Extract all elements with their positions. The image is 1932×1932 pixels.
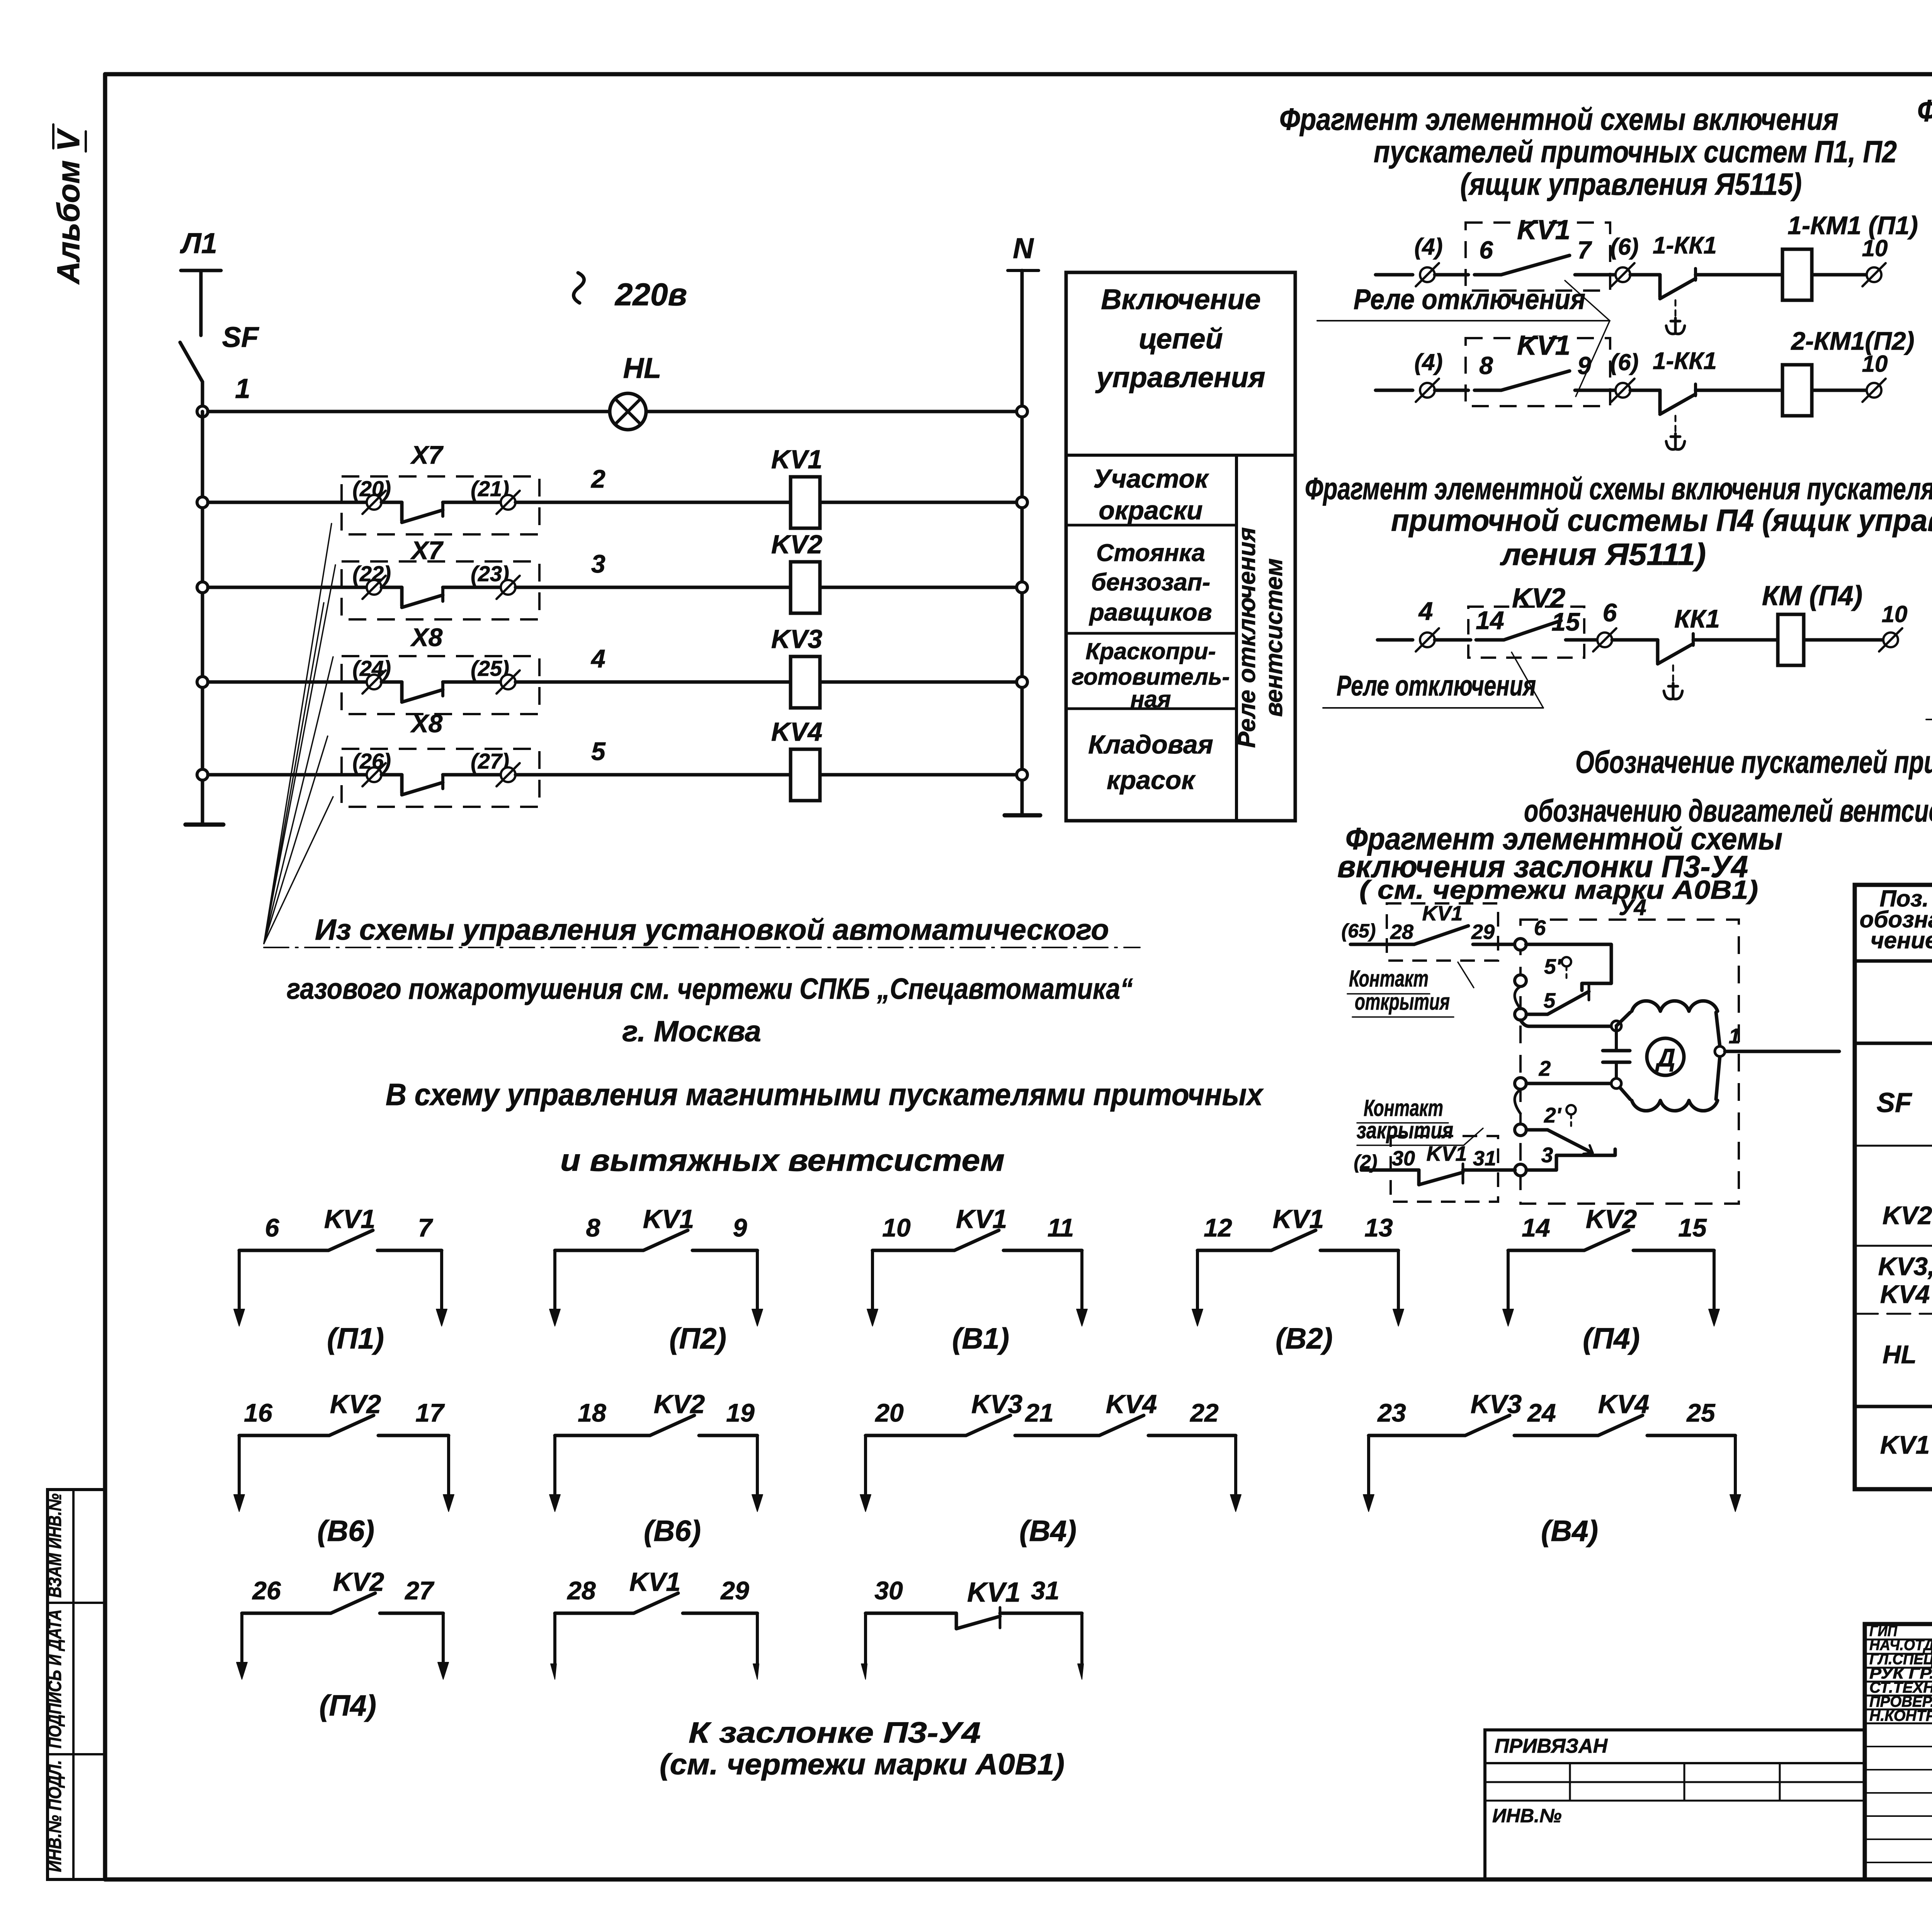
title block frame [1865, 1624, 1932, 1879]
node: bus top junction [197, 406, 208, 417]
wire from node 5 to capacitor/motor junction [1520, 1020, 1616, 1026]
node: left bus junction wire 5 [197, 769, 208, 780]
node 2 wire [1515, 1078, 1526, 1089]
svg-text:X7: X7 [410, 440, 444, 469]
svg-text:2-КМ1(П2): 2-КМ1(П2) [1790, 327, 1914, 355]
node: left bus junction wire 4 [197, 677, 208, 687]
relay contact KV1 30-31 (closing, dashed box) [1391, 1136, 1498, 1202]
svg-text:готовитель-: готовитель- [1072, 664, 1230, 690]
svg-text:Кладовая: Кладовая [1088, 730, 1213, 759]
svg-text:30: 30 [874, 1576, 903, 1605]
svg-text:20: 20 [874, 1398, 904, 1427]
svg-text:KV4: KV4 [1598, 1389, 1649, 1419]
svg-text:KV2: KV2 [330, 1389, 381, 1419]
svg-text:и вытяжных вентсистем: и вытяжных вентсистем [560, 1143, 1005, 1177]
leader fan lines to fire-system contacts [264, 524, 332, 944]
node: left bus junction wire 2 [197, 497, 208, 508]
svg-text:10: 10 [1862, 351, 1888, 377]
svg-text:(В6): (В6) [317, 1515, 374, 1548]
table: Включение цепей управления [1066, 272, 1295, 821]
svg-text:KV1: KV1 [956, 1204, 1007, 1234]
svg-text:равщиков: равщиков [1088, 599, 1212, 626]
svg-text:газового пожаротушения см.: газового пожаротушения см. чертежи СПКБ … [287, 973, 1133, 1005]
svg-text:окраски: окраски [1099, 496, 1202, 525]
damper У4 (dashed enclosure) [1520, 920, 1739, 1204]
svg-text:22: 22 [1189, 1398, 1219, 1427]
svg-text:ления Я5111): ления Я5111) [1500, 537, 1706, 571]
svg-text:управления: управления [1095, 361, 1265, 393]
svg-text:HL: HL [623, 352, 662, 384]
svg-text:г. Москва: г. Москва [622, 1015, 761, 1048]
svg-text:KV1: KV1 [1422, 902, 1463, 925]
svg-text:цепей: цепей [1139, 323, 1223, 355]
svg-text:КК1: КК1 [1674, 604, 1720, 633]
svg-text:KV2: KV2 [771, 530, 822, 559]
svg-text:10: 10 [1882, 601, 1908, 627]
svg-text:9: 9 [733, 1213, 747, 1242]
fire-system contact in connector box (wire 4) [400, 682, 404, 701]
svg-text:18: 18 [578, 1398, 606, 1427]
svg-text:KV1: KV1 [324, 1204, 375, 1234]
svg-text:1-КК1: 1-КК1 [1653, 348, 1717, 374]
wire of rung 2-КМ1(П2) [1376, 389, 1413, 392]
svg-text:Из схемы управления у: Из схемы управления установкой автоматич… [315, 913, 1109, 946]
relay contact KV1 6-7 (dashed box) [1466, 223, 1610, 291]
svg-text:5': 5' [1544, 954, 1562, 978]
contact fragment KV3 KV4 23-25 [1369, 1434, 1465, 1437]
wire 4 to N bus [820, 680, 1022, 684]
node (capacitor bottom junction) [1611, 1078, 1621, 1088]
svg-text:KV3: KV3 [1471, 1389, 1522, 1419]
svg-text:Реле отключения: Реле отключения [1354, 283, 1585, 315]
fire-system contact in connector box (wire 2) [400, 502, 404, 521]
svg-text:(П2): (П2) [669, 1322, 726, 1355]
svg-text:16: 16 [244, 1398, 273, 1427]
svg-text:12: 12 [1204, 1213, 1232, 1242]
svg-text:(4): (4) [1414, 349, 1442, 375]
node: N bus junction [1017, 406, 1027, 417]
contact fragment KV1 6-7 [239, 1249, 328, 1252]
svg-text:25: 25 [1686, 1398, 1716, 1427]
svg-text:К заслонке П3-У4: К заслонке П3-У4 [689, 1716, 981, 1749]
svg-text:2: 2 [1539, 1056, 1551, 1080]
svg-text:6: 6 [1534, 916, 1546, 940]
relay contact KV1 28-29 (opening, dashed box) [1387, 903, 1498, 961]
svg-text:30: 30 [1392, 1147, 1415, 1170]
svg-text:KV1: KV1 [629, 1567, 680, 1597]
svg-text:6: 6 [1479, 236, 1493, 264]
svg-text:7: 7 [1577, 236, 1592, 264]
svg-text:29: 29 [1471, 920, 1495, 944]
N bus bottom terminal bar [1005, 813, 1040, 818]
wire 5 to N bus [820, 773, 1022, 777]
svg-text:24: 24 [1527, 1398, 1556, 1427]
contact fragment KV2 14-15 [1508, 1249, 1584, 1252]
svg-text:KV1: KV1 [1426, 1142, 1467, 1165]
svg-text:31: 31 [1031, 1576, 1059, 1605]
svg-text:28: 28 [1390, 920, 1413, 944]
contact fragment KV1 12-13 [1197, 1249, 1271, 1252]
node 1 and outgoing wire [1715, 1046, 1725, 1056]
svg-text:красок: красок [1107, 765, 1196, 795]
svg-text:31: 31 [1473, 1147, 1496, 1170]
svg-text:X8: X8 [410, 623, 443, 651]
circuit breaker SF [180, 342, 202, 382]
svg-text:10: 10 [882, 1213, 911, 1242]
svg-text:10: 10 [1862, 235, 1888, 261]
wire from node 6 [1526, 944, 1611, 990]
svg-text:5: 5 [591, 737, 606, 765]
svg-text:X7: X7 [410, 536, 444, 565]
svg-text:приточной системы П4 (ящ: приточной системы П4 (ящик управ- [1391, 503, 1932, 537]
svg-text:ПОДПИСЬ И ДАТА: ПОДПИСЬ И ДАТА [45, 1609, 65, 1748]
contact fragment KV1 30-31 (NC) [866, 1612, 956, 1615]
svg-text:Участок: Участок [1094, 464, 1209, 493]
limit switch (opening) 5'-5 [1515, 975, 1526, 986]
svg-text:8: 8 [1479, 352, 1493, 379]
svg-text:В схему управления маг: В схему управления магнитными пускателям… [386, 1077, 1264, 1112]
svg-text:21: 21 [1024, 1398, 1053, 1427]
svg-text:4: 4 [590, 644, 605, 673]
svg-text:KV2: KV2 [1883, 1201, 1932, 1230]
contact fragment KV2 18-19 [555, 1434, 650, 1437]
svg-text:1-КМ1 (П1): 1-КМ1 (П1) [1787, 211, 1918, 240]
svg-text:7: 7 [418, 1213, 434, 1242]
svg-text:ВЗАМ ИНВ.№: ВЗАМ ИНВ.№ [45, 1493, 65, 1598]
svg-text:KV4: KV4 [1880, 1280, 1930, 1308]
svg-text:28: 28 [566, 1576, 596, 1605]
svg-text:1: 1 [235, 374, 250, 404]
fire-system contact in connector box (wire 3) [400, 587, 404, 606]
svg-text:HL: HL [1883, 1340, 1917, 1369]
svg-text:Фрагмент элементной схемы вклю: Фрагмент элементной схемы включения пуск… [1305, 471, 1932, 506]
svg-text:Реле отключения: Реле отключения [1233, 527, 1260, 748]
svg-text:ИНВ.№ ПОДЛ.: ИНВ.№ ПОДЛ. [45, 1760, 65, 1872]
svg-text:Альбом V: Альбом V [51, 128, 86, 285]
wire bulge between 2 and 2' [1515, 1090, 1520, 1114]
svg-text:Фрагмент элементной схемы: Фрагмент элементной схемы включения [1279, 102, 1838, 136]
node 6 [1515, 939, 1526, 950]
svg-text:KV2: KV2 [1586, 1204, 1637, 1234]
left bus Л1 vertical [201, 412, 204, 825]
specification table [1855, 885, 1932, 1489]
relay contact KV2 14-15 (dashed box) [1468, 607, 1584, 658]
svg-text:6: 6 [265, 1213, 280, 1242]
svg-text:SF: SF [222, 321, 259, 353]
wire 3 [208, 586, 367, 589]
svg-text:23: 23 [1377, 1398, 1406, 1427]
svg-text:ИНВ.№: ИНВ.№ [1492, 1805, 1561, 1827]
svg-text:2': 2' [1544, 1103, 1562, 1127]
привязан stamp [1485, 1730, 1865, 1879]
svg-text:220в: 220в [614, 277, 687, 312]
node (capacitor top junction) [1611, 1021, 1621, 1031]
svg-text:ная: ная [1131, 686, 1171, 712]
svg-text:открытия: открытия [1355, 989, 1450, 1015]
svg-text:15: 15 [1678, 1213, 1707, 1242]
svg-text:(ящик управления Я5115): (ящик управления Я5115) [1460, 167, 1802, 201]
svg-text:KV3,: KV3, [1878, 1252, 1932, 1281]
svg-text:чение: чение [1871, 927, 1932, 953]
limit switch (closing) 2'-3 [1515, 1124, 1526, 1136]
wire 2 [208, 501, 367, 504]
svg-text:N: N [1013, 232, 1034, 264]
svg-text:Включение: Включение [1101, 283, 1261, 315]
svg-text:KV4: KV4 [771, 717, 822, 747]
svg-text:KV1: KV1 [1880, 1430, 1930, 1459]
contact fragment KV1 28-29 [555, 1612, 634, 1615]
svg-text:пускателей приточных систем: пускателей приточных систем П1, П2 [1374, 134, 1897, 169]
contact fragment KV3 KV4 20-22 [866, 1434, 966, 1437]
motor Д [1647, 1038, 1684, 1075]
wire 3 to N bus [820, 586, 1022, 589]
svg-text:(65): (65) [1342, 920, 1376, 942]
node: N bus junction [1017, 769, 1027, 780]
svg-text:(В1): (В1) [952, 1322, 1009, 1355]
svg-text:(4): (4) [1414, 234, 1442, 260]
svg-text:бензозап-: бензозап- [1091, 569, 1211, 596]
svg-text:(см. чертежи марки А0В: (см. чертежи марки А0В1) [660, 1748, 1065, 1781]
svg-text:4: 4 [1418, 597, 1433, 625]
svg-text:KV2: KV2 [333, 1567, 384, 1597]
left margin stamp strip (ИНВ.№ ПОДЛ / ПОДПИСЬ И ДАТА / ВЗАМ ИНВ.№) [48, 1490, 105, 1879]
svg-text:13: 13 [1364, 1213, 1393, 1242]
wire 5 [208, 773, 367, 777]
svg-text:2: 2 [590, 464, 605, 493]
svg-text:26: 26 [252, 1576, 281, 1605]
svg-text:Фрагмент элементной схемы в: Фрагмент элементной схемы включения пуск… [1917, 94, 1932, 128]
wire of rung КМ(П4) [1378, 638, 1413, 642]
node: N bus junction [1017, 497, 1027, 508]
svg-text:19: 19 [726, 1398, 755, 1427]
svg-text:Реле отключения: Реле отключения [1337, 670, 1536, 702]
svg-text:(В2): (В2) [1276, 1322, 1333, 1355]
svg-text:закрытия: закрытия [1357, 1117, 1453, 1143]
node: N bus junction [1017, 582, 1027, 593]
svg-text:Стоянка: Стоянка [1096, 539, 1205, 566]
svg-text:17: 17 [415, 1398, 445, 1427]
contact fragment KV1 10-11 [872, 1249, 954, 1252]
node: N bus junction [1017, 677, 1027, 687]
svg-text:6: 6 [1603, 598, 1617, 627]
svg-text:14: 14 [1476, 606, 1504, 634]
svg-text:KV2: KV2 [654, 1389, 705, 1419]
wire bulge between 5' and 5 [1515, 986, 1520, 1009]
svg-text:27: 27 [404, 1576, 435, 1605]
svg-text:KV4: KV4 [1106, 1389, 1157, 1419]
svg-text:KV3: KV3 [971, 1389, 1022, 1419]
svg-text:Д: Д [1655, 1043, 1675, 1072]
svg-text:SF: SF [1877, 1088, 1912, 1118]
wire 2 to N bus [820, 501, 1022, 504]
page border frame [105, 72, 1932, 77]
svg-text:Контакт: Контакт [1364, 1095, 1443, 1121]
wire 4 [208, 680, 367, 684]
svg-text:У4: У4 [1619, 895, 1646, 920]
svg-text:ПРИВЯЗАН: ПРИВЯЗАН [1495, 1735, 1608, 1757]
svg-text:X8: X8 [410, 709, 443, 738]
svg-text:KV1: KV1 [1517, 330, 1570, 361]
svg-text:(В6): (В6) [644, 1515, 701, 1548]
label ~220в [573, 273, 584, 303]
svg-text:Обозначение пускателей прин: Обозначение пускателей принято соответст… [1575, 745, 1932, 780]
svg-text:8: 8 [586, 1213, 600, 1242]
motor winding (bottom arc) [1616, 1083, 1630, 1099]
svg-text:Л1: Л1 [180, 227, 217, 259]
left margin label: Альбом V [51, 124, 86, 285]
svg-text:1-КК1: 1-КК1 [1653, 232, 1717, 259]
svg-text:11: 11 [1048, 1213, 1074, 1242]
svg-text:КМ (П4): КМ (П4) [1762, 581, 1862, 611]
capacitor [1615, 1026, 1618, 1051]
svg-text:вентсистем: вентсистем [1260, 558, 1287, 717]
contact fragment KV2 26-27 [242, 1612, 331, 1615]
svg-text:(6): (6) [1610, 349, 1638, 375]
svg-text:(П4): (П4) [1583, 1322, 1640, 1355]
svg-text:29: 29 [720, 1576, 749, 1605]
motor winding (top arc) [1616, 1012, 1630, 1026]
svg-text:KV1: KV1 [771, 445, 822, 474]
svg-text:KV1: KV1 [967, 1577, 1020, 1608]
svg-text:( см. чертежи марки: ( см. чертежи марки А0В1) [1359, 875, 1758, 905]
svg-text:1: 1 [1729, 1024, 1741, 1048]
svg-text:(В4): (В4) [1019, 1515, 1077, 1548]
node: left bus junction wire 3 [197, 582, 208, 593]
svg-text:(П4): (П4) [319, 1689, 376, 1722]
relay contact KV1 8-9 (dashed box) [1466, 338, 1610, 406]
contact fragment KV2 16-17 [239, 1434, 329, 1437]
svg-text:Н.КОНТР.: Н.КОНТР. [1869, 1708, 1932, 1725]
fire-system contact in connector box (wire 5) [400, 775, 404, 793]
wire of rung 1-КМ1 (П1) [1376, 273, 1413, 277]
svg-text:3: 3 [591, 549, 605, 578]
svg-text:3: 3 [1541, 1143, 1553, 1167]
svg-text:KV1: KV1 [1273, 1204, 1324, 1234]
left bus bottom terminal bar [185, 823, 223, 827]
svg-text:KV1: KV1 [643, 1204, 694, 1234]
contact fragment KV1 8-9 [555, 1249, 643, 1252]
wire from HL to N bus [646, 410, 1022, 413]
svg-text:14: 14 [1522, 1213, 1550, 1242]
svg-text:KV1: KV1 [1517, 215, 1570, 245]
svg-text:KV3: KV3 [771, 624, 822, 654]
svg-text:(В4): (В4) [1541, 1515, 1598, 1548]
svg-text:(П1): (П1) [327, 1322, 384, 1355]
svg-text:Краскопри-: Краскопри- [1085, 638, 1216, 664]
svg-text:Контакт: Контакт [1349, 966, 1429, 992]
svg-text:(6): (6) [1610, 234, 1638, 260]
